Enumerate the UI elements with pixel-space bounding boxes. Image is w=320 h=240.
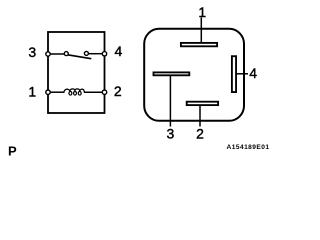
switch fixed contact right <box>84 51 88 55</box>
svg-text:3: 3 <box>28 44 36 60</box>
switch blade (relay contact arm) <box>68 55 92 59</box>
pin 3 slot <box>154 72 190 75</box>
svg-text:4: 4 <box>115 43 123 59</box>
leader line pin 3 <box>169 75 171 127</box>
pin 4 slot <box>232 56 236 92</box>
terminal node 1 <box>46 90 50 94</box>
wire terminal 1 to coil <box>50 91 65 93</box>
wire terminal 3 to switch contact <box>50 53 65 55</box>
wire coil to terminal 2 <box>84 91 103 93</box>
leader line pin 4 <box>236 73 248 75</box>
switch fixed contact left <box>64 52 68 56</box>
pin 1 slot <box>181 43 217 46</box>
relay coil humps <box>64 89 84 93</box>
svg-text:1: 1 <box>28 84 36 100</box>
pin 2 slot <box>187 102 218 105</box>
relay coil loop 1 <box>69 91 72 95</box>
relay connector body outline <box>144 29 244 121</box>
svg-text:4: 4 <box>249 65 257 81</box>
wire switch contact to terminal 4 <box>88 53 103 55</box>
relay coil loop 3 <box>78 91 81 95</box>
svg-text:P: P <box>8 143 17 158</box>
leader line pin 2 <box>199 105 201 127</box>
leader line pin 1 <box>200 18 202 44</box>
svg-text:1: 1 <box>198 4 206 20</box>
relay K1 schematic outline box <box>48 32 105 113</box>
terminal node 4 <box>102 52 106 56</box>
terminal node 2 <box>102 90 106 94</box>
svg-text:3: 3 <box>167 125 175 141</box>
svg-text:2: 2 <box>114 83 122 99</box>
terminal node 3 <box>46 52 50 56</box>
svg-text:A154189E01: A154189E01 <box>227 144 270 151</box>
relay coil loop 2 <box>74 91 77 95</box>
svg-text:2: 2 <box>196 125 204 141</box>
